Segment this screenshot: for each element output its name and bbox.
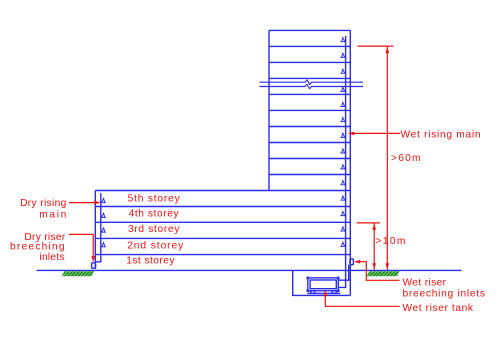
wire tank plinth bbox=[307, 292, 340, 294]
wire break line bbox=[259, 80, 363, 84]
wet landing valve 7 bbox=[340, 133, 345, 137]
arrowhead 60m down bbox=[386, 263, 390, 269]
wire podium floor 3 bbox=[95, 237, 350, 239]
wire dry rising main pipe bbox=[96, 193, 101, 262]
wire ground line bbox=[37, 269, 462, 271]
wire wet rising main pipe bbox=[338, 36, 345, 287]
arrowhead wet tank bbox=[324, 290, 328, 296]
svg-text:2nd storey: 2nd storey bbox=[127, 241, 184, 252]
svg-text:breeching inlets: breeching inlets bbox=[403, 289, 486, 300]
wire tower roof bbox=[269, 29, 350, 31]
wire wet tank leader bbox=[325, 295, 399, 306]
wire 10m top tick bbox=[357, 222, 380, 224]
dry landing valve 4 bbox=[101, 243, 106, 247]
svg-text:4th storey: 4th storey bbox=[129, 209, 180, 220]
wire dry breeching leader bbox=[69, 234, 93, 257]
svg-text:Wet riser: Wet riser bbox=[403, 278, 447, 289]
wet landing valve 2 bbox=[340, 53, 345, 57]
svg-text:>10m: >10m bbox=[375, 236, 405, 247]
wire tower floor 6 bbox=[269, 126, 350, 128]
wet landing valve 6 bbox=[340, 118, 345, 122]
wet landing valve 9 bbox=[340, 165, 345, 169]
wire basement enclosure bbox=[293, 270, 351, 295]
wire tower floor 2 bbox=[269, 61, 350, 63]
svg-text:main: main bbox=[39, 209, 66, 220]
svg-text:5th storey: 5th storey bbox=[128, 194, 181, 205]
dry landing valve 1 bbox=[101, 199, 106, 203]
wet landing valve 13 bbox=[340, 227, 345, 231]
arrowhead wet breeching inlet bbox=[354, 260, 360, 264]
wire 60m top tick bbox=[358, 45, 394, 47]
wire podium left wall bbox=[94, 191, 96, 269]
wet landing valve 3 bbox=[340, 69, 345, 73]
wire tower floor 4 bbox=[269, 93, 350, 95]
arrowhead 10m down bbox=[372, 263, 376, 269]
wire podium floor 4 bbox=[95, 254, 350, 256]
wire tower floor 7 bbox=[269, 142, 350, 144]
dry riser breeching inlet box bbox=[92, 263, 96, 269]
wire tower left wall bbox=[268, 30, 270, 190]
dry landing valve 2 bbox=[101, 213, 106, 217]
arrowhead dry breeching inlet bbox=[91, 256, 95, 262]
wire podium roof bbox=[95, 190, 350, 192]
tank foot right bbox=[332, 291, 336, 294]
arrowhead 10m up bbox=[372, 223, 376, 229]
wire podium floor 1 bbox=[95, 206, 350, 208]
wire 10m dimension line bbox=[373, 223, 375, 270]
svg-text:1st storey: 1st storey bbox=[126, 256, 175, 267]
wet landing valve 1 bbox=[340, 37, 345, 41]
wire tower floor 8 bbox=[269, 158, 350, 160]
wire tower right wall bbox=[349, 30, 351, 295]
arrowhead wet rising main bbox=[348, 132, 354, 136]
ground hatch right bbox=[367, 271, 400, 276]
wire wet rising main leader bbox=[354, 132, 400, 134]
wire 60m dimension line bbox=[386, 46, 388, 270]
wet landing valve 14 bbox=[340, 242, 345, 246]
wet landing valve 12 bbox=[340, 211, 345, 215]
svg-text:Wet riser tank: Wet riser tank bbox=[403, 303, 474, 314]
wire podium floor 2 bbox=[95, 221, 350, 223]
svg-text:inlets: inlets bbox=[39, 252, 64, 263]
wet landing valve 4 bbox=[340, 87, 345, 91]
wet riser breeching inlet box bbox=[350, 259, 354, 265]
wire wet breeching leader bbox=[360, 262, 400, 281]
svg-text:3rd storey: 3rd storey bbox=[128, 224, 180, 235]
wire tower floor 9 bbox=[269, 174, 350, 176]
wire wet inlet pipe bbox=[338, 265, 348, 280]
wire tower floor 1 bbox=[269, 45, 350, 47]
wet riser tank outer bbox=[308, 278, 339, 291]
svg-text:Wet rising main: Wet rising main bbox=[401, 130, 481, 141]
wet landing valve 5 bbox=[340, 102, 345, 106]
wet landing valve 11 bbox=[340, 196, 345, 200]
wire dry rising main leader bbox=[69, 202, 96, 204]
dry landing valve 3 bbox=[101, 228, 106, 232]
svg-text:Dry rising: Dry rising bbox=[20, 198, 67, 209]
wire tower floor 5 bbox=[269, 109, 350, 111]
wet riser tank inner bbox=[310, 280, 336, 289]
wire tower floor 3 bbox=[269, 77, 350, 79]
tank foot left bbox=[311, 291, 315, 294]
ground hatch left bbox=[62, 271, 94, 276]
arrowhead 60m up bbox=[386, 47, 390, 53]
wet landing valve 10 bbox=[340, 181, 345, 185]
arrowhead dry rising main bbox=[94, 201, 100, 205]
wet landing valve 8 bbox=[340, 149, 345, 153]
svg-text:>60m: >60m bbox=[391, 153, 421, 164]
wire break line bbox=[259, 84, 363, 88]
